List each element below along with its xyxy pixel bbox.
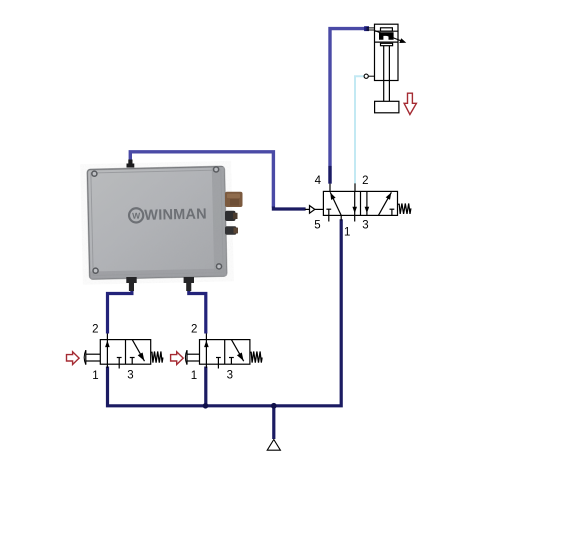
box right lower fitting: [225, 226, 237, 235]
box right middle fitting: [225, 211, 236, 221]
valve V3 arrowhead on 2->3 diagonal: [237, 353, 244, 361]
cylinder side port circle: [364, 74, 368, 78]
box inner lid line: [91, 170, 223, 275]
screw bottom-right: [216, 263, 223, 270]
valve U1 arrowhead on 4->5 down: [365, 207, 370, 213]
valve V2 divider: [125, 340, 127, 365]
valve V3 pushbutton plunger: [187, 353, 199, 355]
cylinder adjustment diagonal arrow: [375, 31, 402, 42]
valve U1 port5 blocked T: [326, 208, 331, 210]
svg-text:3: 3: [127, 370, 133, 382]
WINMAN logo circle: [129, 208, 144, 223]
valve V2 pushbutton plunger: [86, 353, 100, 355]
wire: box bottom-right port to valve V3 port2: [189, 290, 206, 334]
wire: valve V1 port4 dark segment: [328, 166, 331, 184]
cylinder magnet black blob: [379, 32, 394, 40]
valve V2 arrowhead up on 1->2: [105, 340, 110, 347]
valve U1 left box diagonal 1 to 4: [330, 192, 341, 215]
cylinder rod bushing rect: [381, 43, 393, 45]
wire: supply drop from bus junction: [272, 406, 275, 439]
svg-text:3: 3: [362, 219, 368, 231]
valve V3 body: [200, 340, 250, 365]
svg-text:3: 3: [227, 370, 233, 382]
exhaust triangle (air supply symbol) at bottom: [267, 440, 280, 451]
valve U1 pilot triangle: [310, 206, 315, 214]
valve V3 left box blocked T port3: [216, 357, 221, 359]
cylinder piston lower line: [375, 41, 399, 43]
svg-text:5: 5: [314, 219, 320, 231]
valve V2 return spring: [151, 352, 163, 363]
wire: valve V1 port4 to cylinder, medium blue: [330, 29, 365, 183]
valve V3 right box blocked T port1: [229, 357, 234, 359]
wire: pilot leg dark navy: [273, 207, 305, 210]
valve V2 arrowhead on 2->3 diagonal: [138, 353, 145, 361]
valve U1 port stubs: [329, 184, 331, 192]
svg-text:2: 2: [362, 175, 368, 187]
valve V3 divider: [224, 340, 226, 365]
valve U1 left box vertical 2 to 3: [354, 191, 356, 215]
cylinder rod lines: [383, 46, 385, 102]
valve U1 pilot line: [305, 208, 310, 210]
valve V3 right box diagonal 2 to 3: [231, 340, 243, 362]
valve U1 arrowhead on 1->4: [330, 193, 335, 200]
node: blue dot at cylinder top port: [364, 26, 369, 31]
WINMAN control box (photo): [87, 166, 226, 279]
valve V3 return spring: [250, 352, 262, 363]
box bottom shading: [90, 268, 227, 279]
box body face: [87, 166, 226, 279]
cylinder port stub lines top: [367, 27, 375, 29]
valve V2 manual red arrow: [67, 352, 80, 365]
svg-text:1: 1: [344, 226, 350, 238]
valve U1 port3 blocked T (right box): [390, 208, 395, 210]
screw top-left: [91, 170, 98, 177]
cylinder line below cap: [375, 30, 399, 32]
cylinder plate at rod end: [375, 101, 399, 113]
valve V2 body: [100, 340, 150, 365]
wire: box bottom-left port to valve V2 port2: [108, 290, 132, 334]
valve U1 return spring: [398, 204, 411, 214]
wire: valve V1 port1 down to bus, bus, up left valve port1: [108, 219, 342, 406]
cylinder body: [375, 24, 399, 80]
node: junction dot 2 on bus: [271, 403, 277, 409]
valve U1 arrowhead on 1->2: [386, 193, 392, 200]
valve U1 divider: [360, 191, 362, 215]
cylinder top cap rect: [381, 28, 393, 31]
node: junction dot 1 on bus: [203, 403, 209, 409]
valve V2 right box diagonal 2 to 3: [132, 340, 144, 362]
valve U1 body: [323, 191, 397, 215]
red arrow pointing down near cylinder: [404, 93, 416, 114]
box bottom-left nipple: [126, 277, 136, 291]
wire: cyan line valve port2 to cylinder side port: [355, 76, 364, 183]
svg-text:2: 2: [191, 323, 197, 335]
valve U1 right box diagonal 1 to 2: [378, 192, 391, 215]
svg-text:1: 1: [191, 370, 197, 382]
box top nipple: [127, 160, 135, 168]
cylinder side port stub: [368, 75, 374, 77]
svg-text:4: 4: [315, 175, 322, 187]
screw top-right: [213, 166, 220, 173]
valve V2 left box blocked T port3: [117, 357, 122, 359]
valve U1 right box vertical 4 to 5: [366, 191, 368, 215]
valve U1 arrowhead on 2->3 down: [352, 207, 357, 213]
svg-text:WINMAN: WINMAN: [144, 206, 207, 223]
svg-text:1: 1: [92, 370, 98, 382]
valve V2 port stubs: [106, 334, 108, 340]
valve V3 manual red arrow: [171, 352, 184, 365]
svg-text:W: W: [132, 211, 141, 221]
valve V3 arrowhead up on 1->2: [204, 340, 209, 347]
screw bottom-left: [92, 267, 99, 274]
box right side shading: [212, 167, 227, 276]
svg-text:2: 2: [92, 323, 98, 335]
valve V2 right box blocked T port1: [130, 357, 135, 359]
valve V3 port stubs: [205, 334, 207, 340]
valve V3 left box vertical 1 to 2: [205, 340, 207, 365]
wire: right 3/2 valve V3 port1 down to bus: [204, 367, 207, 407]
box bottom-right nipple: [184, 277, 194, 291]
wire: box top port to pilot of valve V1 (medium blue part): [130, 152, 273, 208]
box right brown fitting: [225, 192, 243, 207]
valve V2 left box vertical 1 to 2: [106, 340, 108, 365]
